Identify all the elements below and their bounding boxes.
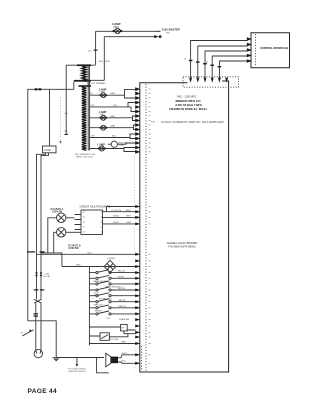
wire IC outputs: [103, 207, 136, 224]
svg-text:SLAM SW: SLAM SW: [119, 318, 130, 321]
wire drop to fuse block: [49, 89, 51, 146]
fuse F6 1 AMP: [97, 143, 106, 151]
wire primary top to left rail: [66, 65, 77, 135]
control interface box U2: [251, 33, 290, 68]
svg-text:18V: 18V: [91, 136, 95, 138]
wire fuse block drops: [37, 153, 49, 300]
switch S3 branch: [89, 287, 135, 297]
fuse block F2: [43, 146, 57, 153]
svg-text:PAGE 44: PAGE 44: [28, 388, 57, 395]
svg-text:P/N A080-91874-B0000: P/N A080-91874-B0000: [168, 245, 196, 249]
svg-text:A: A: [185, 57, 187, 60]
power bus vertical: [88, 267, 90, 346]
wire neutral vertical drop: [103, 37, 105, 81]
transformer T1 secondary winding: [78, 85, 91, 150]
svg-text:BLU: BLU: [112, 136, 117, 138]
ground G1: [53, 358, 60, 361]
svg-text:FRANKLIN PARK ILL 60131: FRANKLIN PARK ILL 60131: [169, 107, 207, 111]
connector J1 pins left group1: [135, 87, 140, 154]
wire harness line 1: [191, 41, 248, 80]
fuse F5 1 AMP: [100, 125, 108, 130]
svg-text:45: 45: [21, 333, 24, 335]
wire BLU line: [37, 253, 136, 255]
switch S6 branch: [89, 305, 135, 313]
wire primary bottom drop: [73, 82, 75, 90]
svg-text:BLK-W: BLK-W: [118, 271, 126, 273]
svg-text:RED: RED: [122, 342, 127, 344]
wire tap 4: [90, 125, 136, 130]
board edge dash lower: [141, 346, 143, 371]
node TP1: [94, 50, 98, 51]
svg-text:RED: RED: [76, 265, 81, 267]
wire switch B to IC: [66, 231, 81, 233]
svg-text:WHT: WHT: [126, 216, 132, 218]
svg-text:A DIV OF BALLY MFG: A DIV OF BALLY MFG: [174, 103, 202, 107]
speaker SP1: [106, 353, 136, 367]
switch S7 branch: [89, 311, 135, 321]
svg-text:CREDIT MULTIPLIER PC: CREDIT MULTIPLIER PC: [80, 205, 111, 209]
switch S2 branch: [89, 281, 135, 289]
transformer T1 primary winding: [74, 64, 105, 81]
wire AC line top: [96, 30, 161, 32]
wire bus bottom stub: [89, 343, 135, 345]
svg-text:TILT: TILT: [106, 318, 111, 320]
svg-text:115V MASTER: 115V MASTER: [162, 28, 180, 32]
wire AC neutral: [104, 36, 160, 38]
switch S8 tilt branch: [89, 333, 128, 341]
bridge rectifier BR1: [104, 260, 116, 272]
connector pins group3: [135, 253, 140, 345]
wire rails crossover X: [34, 299, 42, 303]
node junction bars y252: [27, 251, 35, 252]
svg-text:CR: CR: [121, 327, 125, 329]
switch S1 branch: [89, 275, 135, 283]
svg-text:P10: P10: [151, 122, 156, 124]
svg-text:250V: 250V: [113, 27, 119, 29]
connector plug symbols: [154, 35, 156, 37]
switch S5 branch: [89, 299, 135, 307]
svg-text:BRN: BRN: [111, 126, 116, 128]
wire tap 2: [90, 103, 136, 112]
wire rail A bottom turn: [28, 321, 56, 357]
wire drop to coin switches: [48, 218, 57, 253]
pin number marks group4: [149, 354, 151, 363]
coin switch SW-B: [57, 228, 81, 250]
connector outline dash lower left: [134, 348, 136, 371]
svg-text:M CHUTE A: M CHUTE A: [51, 208, 64, 211]
svg-text:GRN: GRN: [122, 353, 127, 355]
wire tap 5: [90, 134, 136, 139]
knocker switch S10: [21, 329, 34, 336]
svg-text:BLU: BLU: [88, 252, 93, 254]
label GAME LOGIC BOARD: [167, 241, 198, 249]
svg-text:C-8 BLK: C-8 BLK: [107, 258, 116, 260]
svg-text:GAME LOGIC BOARD: GAME LOGIC BOARD: [167, 241, 198, 245]
connector pins group2: [135, 205, 140, 225]
connector pins group4: [135, 353, 140, 365]
svg-text:RED: RED: [111, 116, 116, 118]
wire switch A to IC: [66, 218, 81, 230]
wire main left feeder: [28, 88, 74, 90]
svg-text:+5 VOLTS: +5 VOLTS: [111, 210, 122, 212]
svg-text:SW B: SW B: [113, 222, 119, 224]
svg-text:GRN: GRN: [110, 93, 115, 95]
wire tap 2b stub: [125, 95, 136, 98]
svg-text:B: B: [207, 61, 209, 63]
svg-text:MIDWAY MFG CO: MIDWAY MFG CO: [176, 99, 202, 103]
wire hot vertical drop: [95, 31, 97, 65]
svg-text:GRN: GRN: [126, 222, 131, 224]
wire tap 6: [90, 148, 136, 152]
node NC tick: [64, 134, 68, 135]
fuse F3 1 AMP: [99, 87, 108, 97]
arrow pins into control box: [247, 37, 252, 63]
node junction bars y314: [34, 313, 39, 314]
svg-text:WH-B: WH-B: [118, 276, 124, 278]
ground rail to speaker: [56, 357, 104, 359]
svg-text:CONTROL INTERFACE: CONTROL INTERFACE: [260, 46, 288, 50]
switch S0 branch: [89, 270, 135, 274]
wire shield branch: [97, 358, 109, 373]
pin number marks group3: [149, 254, 151, 344]
svg-text:COIN SW: COIN SW: [52, 211, 63, 213]
svg-text:GRY-W: GRY-W: [118, 300, 126, 302]
wire tap 3: [90, 116, 136, 121]
svg-text:FLIP: FLIP: [120, 145, 125, 147]
svg-text:115: 115: [88, 51, 92, 53]
svg-text:3 AMP: 3 AMP: [112, 22, 121, 26]
connector outline dash mid: [134, 156, 136, 205]
motor M1: [108, 141, 136, 147]
relay CR1: [89, 324, 135, 333]
pin number marks group1: [149, 89, 151, 153]
wire harness line 4: [212, 56, 247, 79]
svg-text:TILT SW: TILT SW: [110, 339, 119, 341]
fuse F1 3 AMP: [112, 22, 122, 34]
control interface dashed edge: [255, 34, 257, 66]
label 115V MASTER: [157, 28, 180, 35]
svg-text:SWITCH LIGHTS: SWITCH LIGHTS: [69, 371, 87, 373]
pin number marks group2: [149, 206, 151, 224]
connector strip top dashed: [183, 77, 239, 87]
wire NC dashed: [60, 97, 62, 141]
wire left rail A: [27, 89, 29, 320]
switch S4 branch: [89, 293, 135, 301]
svg-text:BLU-W: BLU-W: [118, 288, 126, 290]
game logic board box outline: [140, 81, 229, 372]
transformer core: [88, 66, 89, 150]
svg-text:COIN SW: COIN SW: [69, 248, 80, 250]
svg-text:SW: SW: [166, 33, 170, 35]
svg-text:4.6: 4.6: [65, 113, 69, 115]
svg-text:BLK: BLK: [122, 360, 127, 362]
wire RED line: [62, 266, 136, 268]
svg-text:FUSE: FUSE: [44, 149, 51, 152]
svg-text:BLK / WHT: BLK / WHT: [99, 61, 111, 63]
wire RED jog: [41, 253, 62, 267]
splice marks on harness: [189, 60, 221, 68]
svg-text:TAPS LOW VOLT: TAPS LOW VOLT: [76, 155, 94, 158]
board edge dashed: [145, 84, 147, 371]
svg-text:DOOR: DOOR: [44, 276, 51, 278]
IC U1 credit multiplier: [75, 210, 103, 235]
svg-text:1 AMP: 1 AMP: [97, 143, 105, 147]
coin switch SW-A: [51, 208, 66, 223]
wire harness line 2: [198, 46, 248, 79]
wire rails B C lower: [36, 303, 41, 350]
wire harness line 3: [205, 51, 248, 79]
arrow to coin door lights: [68, 358, 87, 374]
svg-text:HI VOLT PRIMARY: HI VOLT PRIMARY: [87, 82, 106, 85]
node coin door splices: [36, 272, 51, 278]
svg-text:RESET: RESET: [95, 310, 103, 312]
wire harness line 5: [219, 61, 247, 79]
svg-text:RED: RED: [126, 210, 131, 212]
node junction bars y290: [34, 289, 39, 290]
fuse F4 1 AMP: [99, 110, 108, 120]
node splice on feeder: [35, 88, 38, 90]
knocker coil L1: [34, 349, 42, 357]
svg-text:NC: NC: [65, 131, 69, 133]
svg-text:SW A: SW A: [113, 215, 119, 218]
svg-text:25V: 25V: [91, 105, 95, 107]
wire tap 1: [90, 89, 136, 95]
svg-text:ORN-W: ORN-W: [118, 306, 127, 308]
board title text block: [169, 96, 207, 112]
pin arrows top connector: [189, 78, 228, 83]
svg-text:ACTUAL SCHEMATIC PART NO. 0614: ACTUAL SCHEMATIC PART NO. 0614-00065-49X…: [161, 121, 224, 124]
svg-text:250V: 250V: [100, 92, 106, 94]
svg-text:250V: 250V: [100, 114, 106, 116]
